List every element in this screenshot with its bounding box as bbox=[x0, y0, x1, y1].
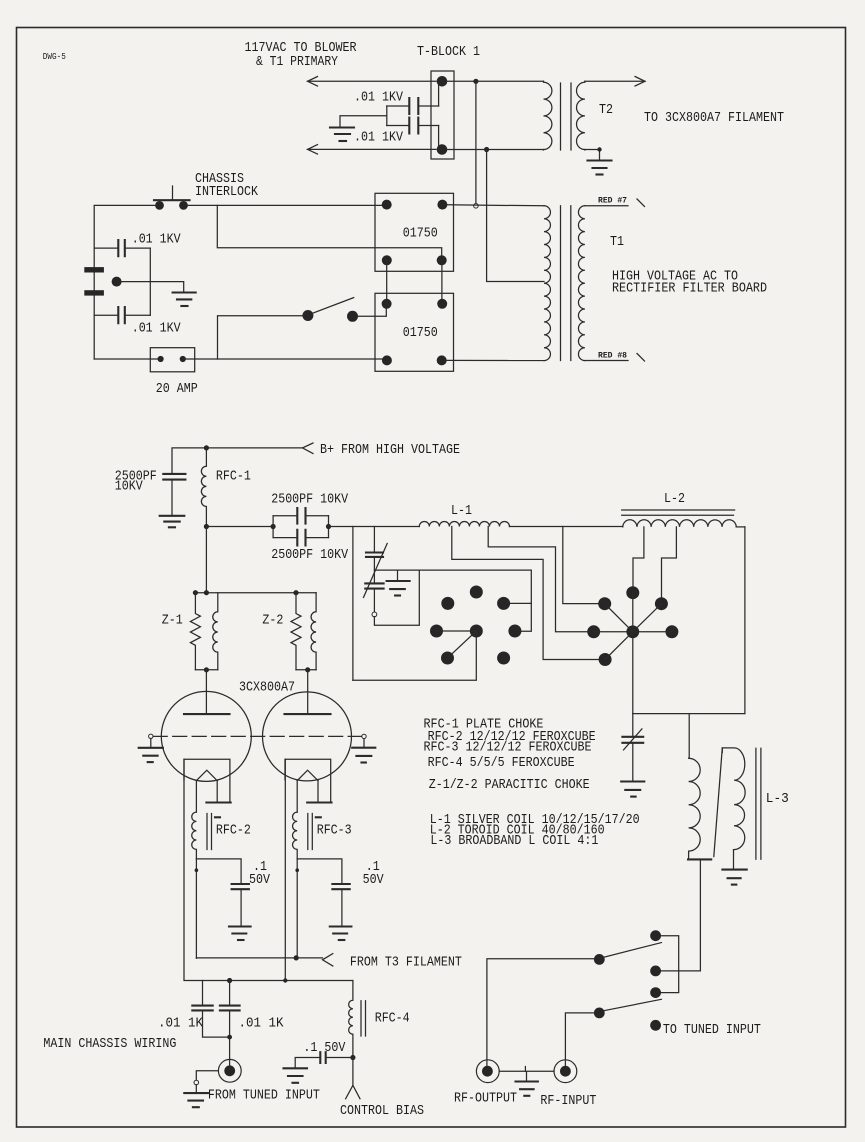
ground (T2 secondary) bbox=[588, 161, 612, 175]
ground (tune cap rotor) bbox=[387, 581, 410, 596]
svg-text:L-2: L-2 bbox=[664, 492, 685, 507]
label CONTROL BIAS bbox=[340, 1104, 424, 1119]
svg-text:Z-1/Z-2 PARACITIC CHOKE: Z-1/Z-2 PARACITIC CHOKE bbox=[429, 778, 590, 793]
ground (AC plug) bbox=[173, 293, 196, 307]
wire between RF connectors with ground tap bbox=[499, 1067, 554, 1082]
tube V1 envelope bbox=[161, 691, 251, 781]
transformer T1 core bbox=[561, 206, 571, 361]
wire L-3 primary bottom down to input switch middle contact bbox=[661, 859, 700, 971]
wire L-1 tap A down to wafer B lower-left contact bbox=[452, 527, 600, 660]
svg-text:RED #7: RED #7 bbox=[598, 197, 627, 206]
capacitor .01 1KV lower (T-block) bbox=[354, 118, 439, 146]
wire tank output down to L-3 bbox=[688, 714, 690, 759]
label 3CX800A7 bbox=[239, 681, 295, 696]
wire lower AC feed with left arrow bbox=[308, 145, 437, 155]
svg-text:.01 1KV: .01 1KV bbox=[132, 321, 182, 336]
node RFC-1 bottom junction bbox=[204, 524, 209, 529]
node RFC-4 / bias cap junction bbox=[350, 1055, 355, 1060]
capacitor .1 50V (bias) bbox=[295, 1041, 353, 1068]
node junction on lower wire bbox=[484, 147, 489, 152]
fuse 20 AMP bbox=[150, 348, 198, 397]
wire TB1 upper junction down to relay K1 output wire bbox=[475, 81, 477, 203]
terminal block TB1 bbox=[431, 71, 454, 159]
svg-text:2500PF 10KV: 2500PF 10KV bbox=[271, 548, 349, 563]
band switch wafer B contacts bbox=[587, 586, 678, 666]
ground (caps at T-block) bbox=[330, 128, 354, 142]
svg-text:.01 1K: .01 1K bbox=[158, 1017, 204, 1032]
wire blocking caps to L-1 (plate line) bbox=[329, 526, 420, 528]
ground (V2 cathode cap) bbox=[330, 927, 352, 941]
ground (bias cap) bbox=[284, 1068, 308, 1083]
svg-text:FROM T3 FILAMENT: FROM T3 FILAMENT bbox=[350, 955, 462, 970]
wire TB1 bottom terminal to T2 primary bottom bbox=[447, 149, 544, 151]
wire cathode bus bbox=[184, 759, 353, 983]
wire TB1 top terminal to T2 primary top bbox=[447, 80, 544, 82]
wire cap right stub to TB1 terminals bbox=[438, 81, 440, 149]
relay K2 01750 bbox=[375, 293, 454, 371]
label MAIN CHASSIS WIRING bbox=[43, 1037, 176, 1052]
wire L-3 secondary bottom to ground bbox=[733, 850, 735, 870]
wire B+ feed with arrow bbox=[172, 443, 313, 474]
svg-text:Z-2: Z-2 bbox=[262, 614, 283, 629]
svg-text:.01 1KV: .01 1KV bbox=[354, 91, 404, 106]
svg-text:.01 1KV: .01 1KV bbox=[132, 232, 182, 247]
wire control bias exit with arrow bbox=[346, 1058, 360, 1099]
wire tune cap rotor to chassis ground bbox=[374, 570, 419, 581]
inductor RFC-2 with core bbox=[192, 812, 251, 859]
ground (RF connectors) bbox=[516, 1082, 538, 1096]
capacitor .01 1KV left upper bbox=[94, 232, 181, 256]
wire parasitic choke bus bbox=[193, 590, 316, 595]
capacitor 2500PF 10KV (B+ bypass) bbox=[115, 470, 186, 516]
ground (tuned input jack) bbox=[184, 1093, 208, 1107]
svg-text:RFC-2: RFC-2 bbox=[216, 824, 251, 839]
wire T1 secondary bottom lead RED #8 bbox=[585, 352, 645, 362]
svg-text:INTERLOCK: INTERLOCK bbox=[195, 185, 259, 200]
inductor RFC-3 with core bbox=[293, 812, 352, 859]
svg-text:T2: T2 bbox=[599, 103, 613, 118]
svg-text:01750: 01750 bbox=[403, 227, 438, 242]
wire wafer B spokes bbox=[594, 593, 672, 660]
connector RF-OUTPUT bbox=[454, 1060, 517, 1107]
transformer T1 primary winding bbox=[544, 206, 550, 361]
capacitor pair 2500PF 10KV blocking bbox=[271, 493, 349, 563]
svg-text:RFC-3 12/12/12 FEROXCUBE: RFC-3 12/12/12 FEROXCUBE bbox=[424, 740, 592, 755]
node B+ / RFC-1 junction bbox=[204, 445, 209, 450]
wire TB1 lower junction down and right to T1 primary center tap bbox=[487, 150, 544, 282]
ground (V1 cathode cap) bbox=[229, 927, 251, 941]
grid terminal right with ground bbox=[352, 734, 375, 762]
AC plug ground pin and wire to ground bbox=[112, 277, 184, 292]
tube V2 cathode structure bbox=[285, 759, 332, 812]
wire input switch throw bracket bbox=[661, 936, 679, 993]
variable padder capacitor on tank output bbox=[622, 714, 643, 782]
wire wafer A center down to plate line return bbox=[353, 631, 476, 680]
input switch middle contact bbox=[650, 966, 661, 977]
wire V2 cathode down to bus bbox=[284, 759, 286, 980]
ground (L-3 secondary) bbox=[722, 870, 746, 885]
transformer T2 secondary winding bbox=[577, 81, 585, 150]
component list text block bbox=[424, 718, 640, 849]
svg-text:50V: 50V bbox=[363, 873, 385, 888]
wire wafer A upper-right contact stub bbox=[509, 602, 532, 604]
svg-text:RF-INPUT: RF-INPUT bbox=[540, 1094, 596, 1109]
svg-text:3CX800A7: 3CX800A7 bbox=[239, 681, 295, 696]
contact TO TUNED INPUT bbox=[650, 1020, 761, 1038]
input switch upper section bbox=[594, 930, 662, 965]
transformer T2 core bbox=[561, 83, 572, 150]
label FROM T3 FILAMENT bbox=[350, 955, 462, 970]
AC plug prong upper bbox=[84, 267, 104, 272]
wire tune cap bottom to wafer A frame bbox=[374, 570, 531, 631]
label HIGH VOLTAGE AC TO RECTIFIER FILTER BOARD bbox=[612, 270, 767, 297]
transformer T1 secondary winding bbox=[578, 206, 584, 361]
capacitor .1 50V (V1 cathode) bbox=[232, 860, 271, 927]
label B+ FROM HIGH VOLTAGE bbox=[320, 443, 460, 458]
connector jack FROM TUNED INPUT bbox=[218, 1059, 241, 1082]
svg-text:.01 1K: .01 1K bbox=[239, 1017, 285, 1032]
node tune cap bottom feedthrough circle bbox=[372, 612, 377, 617]
capacitor .1 50V (V2 cathode) bbox=[332, 860, 384, 927]
arrow FROM T3 FILAMENT bbox=[323, 954, 333, 966]
capacitor .01 1KV upper (T-block) bbox=[354, 91, 439, 115]
tube V1 plate bbox=[184, 670, 230, 714]
label T-BLOCK 1 bbox=[417, 45, 480, 60]
wire L-2 right end down to tank output line bbox=[744, 527, 746, 714]
wire S1 to relay K2 upper-left terminal bbox=[358, 308, 386, 316]
ground (B+ bypass cap) bbox=[160, 516, 185, 528]
svg-text:10KV: 10KV bbox=[115, 480, 144, 495]
label T2 bbox=[599, 103, 613, 118]
ground (padder capacitor) bbox=[621, 782, 644, 797]
wire RFC-2 bottom to bypass cap and down bbox=[195, 859, 242, 958]
wire plate feed down to parasitic choke bus bbox=[205, 527, 207, 593]
svg-text:RFC-1: RFC-1 bbox=[216, 470, 251, 485]
svg-text:MAIN CHASSIS WIRING: MAIN CHASSIS WIRING bbox=[43, 1037, 176, 1052]
svg-text:Z-1: Z-1 bbox=[162, 614, 183, 629]
wire tee down to K1 lower contact feed bbox=[217, 205, 441, 256]
wire lower pole to RF-INPUT riser bbox=[565, 1013, 594, 1070]
svg-text:RFC-3: RFC-3 bbox=[317, 824, 352, 839]
wire wafer A rotor links bbox=[437, 631, 477, 658]
svg-text:2500PF 10KV: 2500PF 10KV bbox=[271, 493, 349, 508]
svg-text:RFC-4: RFC-4 bbox=[375, 1012, 410, 1027]
wire interlock to relay K1 coil bbox=[188, 204, 382, 206]
capacitor .01 1K left (cathode) bbox=[158, 981, 230, 1038]
svg-text:.01 1KV: .01 1KV bbox=[354, 131, 404, 146]
svg-text:50V: 50V bbox=[249, 873, 271, 888]
node open circle junction bbox=[474, 204, 479, 209]
wire K1 top-right to T1 primary top bbox=[447, 205, 544, 206]
svg-text:DWG-5: DWG-5 bbox=[43, 52, 66, 62]
wire RF-OUTPUT riser to input switch upper pole bbox=[487, 959, 595, 1070]
svg-text:RECTIFIER FILTER BOARD: RECTIFIER FILTER BOARD bbox=[612, 282, 767, 297]
inductor L-2 toroid coil with core bars bbox=[622, 492, 745, 527]
node junction on upper wire bbox=[473, 79, 478, 84]
grid line dashed through both tubes bbox=[153, 735, 362, 737]
svg-text:RED #8: RED #8 bbox=[598, 352, 627, 361]
label 117VAC TO BLOWER / & T1 PRIMARY bbox=[245, 41, 357, 70]
svg-text:T1: T1 bbox=[610, 235, 624, 250]
svg-text:CONTROL BIAS: CONTROL BIAS bbox=[340, 1104, 424, 1119]
tube V1 cathode structure bbox=[184, 759, 231, 812]
wire plate line down to wafer B upper-left contact bbox=[563, 527, 600, 604]
wire K2 bottom-right to T1 primary bottom bbox=[447, 359, 545, 361]
capacitor .01 1K right (cathode) bbox=[220, 981, 284, 1060]
wire wafer B center down to tank output line bbox=[633, 632, 745, 714]
wire L-1 tap B down to wafer B left contact bbox=[488, 527, 588, 632]
tube V2 envelope bbox=[263, 692, 352, 781]
svg-text:TO 3CX800A7 FILAMENT: TO 3CX800A7 FILAMENT bbox=[644, 111, 784, 126]
svg-text:T-BLOCK 1: T-BLOCK 1 bbox=[417, 45, 480, 60]
svg-text:TO TUNED INPUT: TO TUNED INPUT bbox=[663, 1023, 761, 1038]
band switch wafer A contacts bbox=[430, 586, 521, 665]
AC plug prong lower bbox=[84, 290, 104, 295]
svg-text:L-3 BROADBAND L COIL 4:1: L-3 BROADBAND L COIL 4:1 bbox=[430, 834, 598, 849]
parasitic choke Z-1 bbox=[162, 593, 218, 673]
svg-text:01750: 01750 bbox=[403, 326, 438, 341]
input switch lower section bbox=[594, 987, 662, 1018]
inductor RFC-4 with core bbox=[349, 981, 410, 1058]
transformer L-3 broadband bbox=[688, 748, 789, 860]
wire fuse to relay K2 lower-left terminal bbox=[186, 358, 383, 360]
relay K1 01750 bbox=[375, 193, 454, 271]
grid terminal left with ground bbox=[139, 734, 163, 762]
wire T2 secondary bottom to ground bbox=[585, 147, 602, 160]
inductor RFC-1 plate choke bbox=[201, 448, 251, 527]
svg-text:L-1: L-1 bbox=[451, 504, 472, 519]
svg-text:L-3: L-3 bbox=[766, 792, 789, 807]
tube V2 plate bbox=[285, 670, 331, 714]
wire jack shell to ground bbox=[194, 1071, 218, 1093]
wire K1 bottom terminals down to relay K2 top terminals bbox=[387, 260, 442, 304]
inductor L-1 silver coil bbox=[419, 504, 509, 527]
wire RFC-3 bottom to bypass cap and down bbox=[295, 859, 341, 958]
wire upper AC feed with left arrow bbox=[308, 77, 437, 87]
svg-text:117VAC TO BLOWER: 117VAC TO BLOWER bbox=[245, 41, 357, 56]
wire tee up from fuse line to toggle switch bbox=[218, 316, 303, 359]
label CHASSIS INTERLOCK bbox=[195, 172, 259, 200]
wire L-1 to L-2 bbox=[510, 526, 623, 528]
wire T3 filament line bbox=[196, 955, 322, 960]
wire joining both left caps right side bbox=[149, 248, 151, 315]
wire T1 secondary top lead RED #7 bbox=[585, 197, 645, 207]
parasitic choke Z-2 bbox=[262, 593, 316, 673]
svg-text:RF-OUTPUT: RF-OUTPUT bbox=[454, 1091, 517, 1106]
wire plate line tee down to wafer A center return bbox=[352, 527, 354, 681]
wire T2 secondary top to filament arrow bbox=[585, 77, 645, 87]
svg-text:FROM TUNED INPUT: FROM TUNED INPUT bbox=[208, 1088, 320, 1103]
label DWG-5 bbox=[43, 52, 66, 62]
label TO 3CX800A7 FILAMENT bbox=[644, 111, 784, 126]
connector RF-INPUT bbox=[540, 1060, 596, 1109]
capacitor .01 1KV left lower bbox=[94, 307, 181, 336]
wire RFC-1 to blocking caps bbox=[206, 526, 273, 528]
label T1 bbox=[610, 235, 624, 250]
toggle switch S1 bbox=[302, 298, 358, 322]
svg-text:& T1 PRIMARY: & T1 PRIMARY bbox=[256, 55, 338, 70]
label FROM TUNED INPUT bbox=[208, 1088, 320, 1103]
wire AC rail to fuse bbox=[94, 358, 157, 360]
svg-text:RFC-4 5/5/5 FEROXCUBE: RFC-4 5/5/5 FEROXCUBE bbox=[428, 756, 575, 771]
wire L-2 tap 1 down to wafer B top contact bbox=[633, 527, 644, 588]
wire interlock left to AC line rail bbox=[94, 205, 155, 359]
svg-text:20 AMP: 20 AMP bbox=[156, 382, 198, 397]
wire cap common left stub to ground bbox=[340, 106, 387, 127]
wire L-2 tap 2 down to wafer B upper-right contact bbox=[662, 527, 677, 599]
chassis interlock switch bbox=[154, 186, 190, 210]
svg-text:B+ FROM HIGH VOLTAGE: B+ FROM HIGH VOLTAGE bbox=[320, 443, 460, 458]
transformer T2 primary winding bbox=[544, 81, 552, 150]
tune capacitor split stator (variable) bbox=[364, 527, 388, 613]
